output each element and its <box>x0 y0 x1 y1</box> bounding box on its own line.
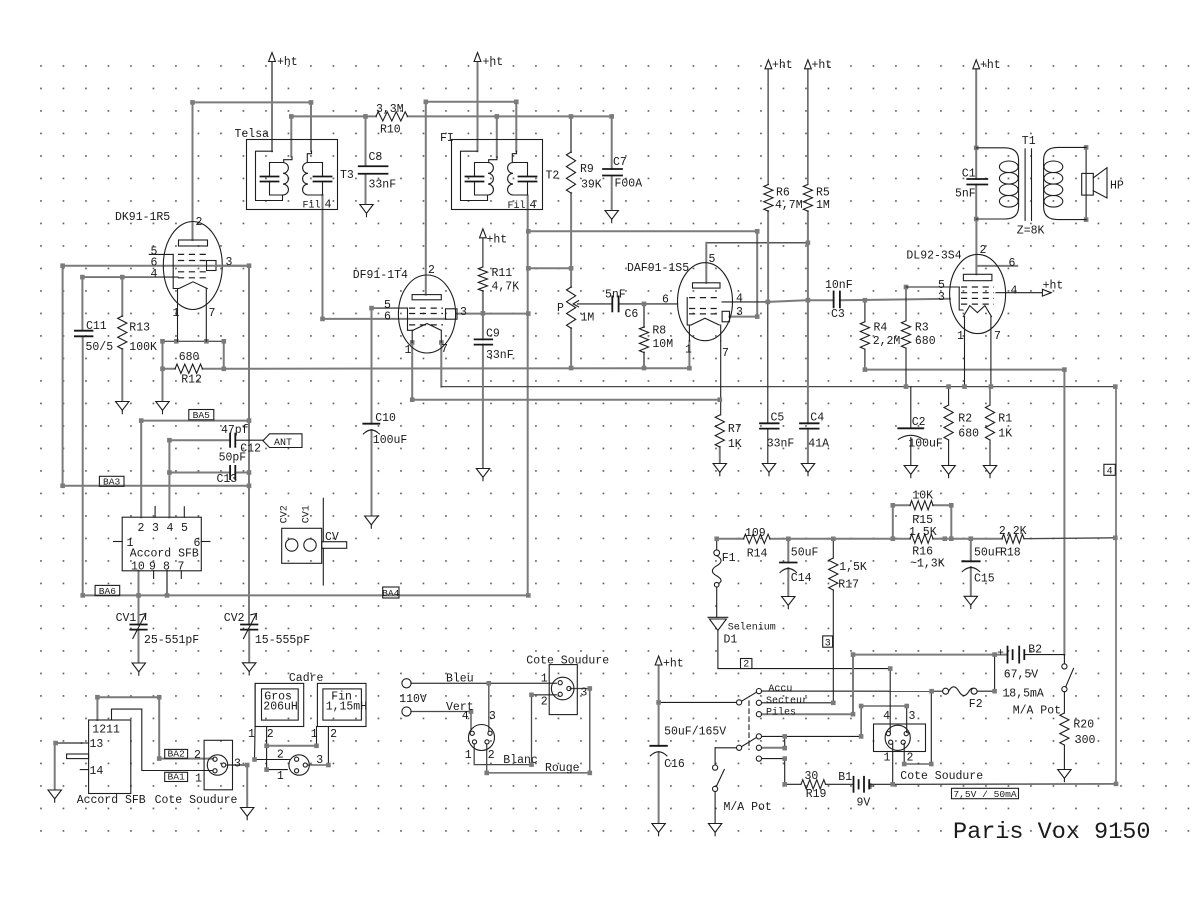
svg-text:C14: C14 <box>791 572 812 585</box>
svg-text:DL92-3S4: DL92-3S4 <box>906 250 961 263</box>
svg-text:4: 4 <box>736 293 743 306</box>
svg-text:Cote Soudure: Cote Soudure <box>155 794 238 807</box>
svg-text:50uF: 50uF <box>791 547 819 560</box>
svg-text:1: 1 <box>541 673 548 686</box>
svg-text:+ht: +ht <box>483 56 504 69</box>
svg-text:T2: T2 <box>546 170 560 183</box>
svg-text:7: 7 <box>209 307 216 320</box>
svg-text:50uF/165V: 50uF/165V <box>664 726 726 739</box>
svg-text:2,2M: 2,2M <box>873 335 901 348</box>
svg-text:D1: D1 <box>724 634 738 647</box>
svg-text:7: 7 <box>994 330 1001 343</box>
svg-text:C8: C8 <box>369 151 383 164</box>
svg-text:3: 3 <box>580 687 587 700</box>
svg-text:13: 13 <box>90 738 104 751</box>
svg-text:3: 3 <box>489 710 496 723</box>
svg-text:10: 10 <box>131 561 145 574</box>
svg-text:C13: C13 <box>217 473 238 486</box>
svg-text:33nF: 33nF <box>369 179 397 192</box>
svg-text:C15: C15 <box>974 573 995 586</box>
svg-text:R19: R19 <box>806 788 827 801</box>
svg-text:R20: R20 <box>1073 719 1094 732</box>
svg-text:F1: F1 <box>722 552 736 565</box>
svg-text:100uF: 100uF <box>373 434 408 447</box>
svg-text:1: 1 <box>465 749 472 762</box>
svg-text:2: 2 <box>196 216 203 229</box>
svg-text:BA2: BA2 <box>167 749 185 760</box>
svg-text:R17: R17 <box>838 579 859 592</box>
svg-text:3: 3 <box>152 522 159 535</box>
svg-text:2: 2 <box>194 749 201 762</box>
svg-text:1,5K: 1,5K <box>839 561 867 574</box>
svg-text:R6: R6 <box>776 187 790 200</box>
svg-text:DF91-1T4: DF91-1T4 <box>353 269 408 282</box>
svg-text:CV2: CV2 <box>280 505 291 523</box>
svg-text:HP: HP <box>1110 180 1124 193</box>
svg-text:C11: C11 <box>86 320 107 333</box>
svg-text:Secteur: Secteur <box>766 696 808 707</box>
svg-text:+: + <box>997 647 1004 660</box>
svg-text:Accord SFB: Accord SFB <box>77 794 146 807</box>
svg-text:+ht: +ht <box>487 234 508 247</box>
svg-text:3: 3 <box>460 306 467 319</box>
svg-text:4: 4 <box>883 710 890 723</box>
svg-text:4: 4 <box>325 199 332 212</box>
svg-text:1: 1 <box>195 773 202 786</box>
svg-text:Cadre: Cadre <box>289 672 324 685</box>
svg-text:50uF: 50uF <box>974 547 1002 560</box>
svg-text:1K: 1K <box>728 438 742 451</box>
svg-text:680: 680 <box>915 335 936 348</box>
svg-text:5nF: 5nF <box>605 289 626 302</box>
svg-text:9: 9 <box>149 561 156 574</box>
svg-text:4: 4 <box>1011 285 1018 298</box>
svg-text:T1: T1 <box>1022 135 1036 148</box>
svg-text:67,5V: 67,5V <box>1004 669 1039 682</box>
svg-text:+ht: +ht <box>980 59 1001 72</box>
svg-text:10nF: 10nF <box>825 279 853 292</box>
svg-text:R13: R13 <box>129 322 150 335</box>
svg-text:P: P <box>557 302 564 315</box>
svg-text:4: 4 <box>530 199 537 212</box>
svg-text:F00A: F00A <box>615 178 643 191</box>
svg-text:R8: R8 <box>652 325 666 338</box>
svg-text:300: 300 <box>1075 734 1096 747</box>
svg-text:3: 3 <box>909 710 916 723</box>
svg-text:+: + <box>868 781 875 794</box>
svg-text:3: 3 <box>226 256 233 269</box>
svg-text:2: 2 <box>267 728 274 741</box>
svg-text:M/A Pot: M/A Pot <box>724 801 772 814</box>
svg-text:Cote Soudure: Cote Soudure <box>526 655 609 668</box>
svg-text:Telsa: Telsa <box>235 128 270 141</box>
svg-text:R3: R3 <box>915 322 929 335</box>
svg-text:C1: C1 <box>962 168 976 181</box>
svg-text:C10: C10 <box>375 412 396 425</box>
svg-text:R18: R18 <box>1000 547 1021 560</box>
svg-text:4,7M: 4,7M <box>775 199 803 212</box>
svg-text:R2: R2 <box>958 413 972 426</box>
svg-text:3: 3 <box>825 638 831 649</box>
svg-text:100K: 100K <box>129 341 157 354</box>
svg-text:41A: 41A <box>808 438 829 451</box>
svg-text:1: 1 <box>957 330 964 343</box>
svg-text:~1,3K: ~1,3K <box>910 558 945 571</box>
svg-text:2: 2 <box>980 244 987 257</box>
svg-text:6: 6 <box>384 311 391 324</box>
svg-text:Vert: Vert <box>446 701 474 714</box>
svg-text:C6: C6 <box>625 308 639 321</box>
svg-text:BA4: BA4 <box>382 588 400 599</box>
svg-text:Bleu: Bleu <box>446 673 474 686</box>
svg-text:109: 109 <box>745 527 766 540</box>
svg-text:680: 680 <box>179 351 200 364</box>
svg-text:4: 4 <box>462 710 469 723</box>
svg-text:15-555pF: 15-555pF <box>255 634 310 647</box>
svg-text:5: 5 <box>709 253 716 266</box>
svg-text:1: 1 <box>173 307 180 320</box>
svg-text:47pf: 47pf <box>221 424 249 437</box>
svg-text:+ht: +ht <box>772 59 793 72</box>
svg-text:33nF: 33nF <box>767 438 795 451</box>
svg-text:1: 1 <box>277 770 284 783</box>
svg-text:1K: 1K <box>998 428 1012 441</box>
svg-text:C2: C2 <box>912 416 926 429</box>
svg-text:Accu: Accu <box>768 684 792 695</box>
svg-text:C4: C4 <box>810 412 824 425</box>
svg-text:2: 2 <box>138 522 145 535</box>
svg-text:CV1: CV1 <box>301 505 312 523</box>
svg-text:Z=8K: Z=8K <box>1017 225 1045 238</box>
svg-text:39K: 39K <box>581 179 602 192</box>
svg-text:R5: R5 <box>816 187 830 200</box>
svg-text:BA6: BA6 <box>99 586 117 597</box>
svg-text:Rouge: Rouge <box>545 762 580 775</box>
svg-text:C9: C9 <box>486 328 500 341</box>
svg-text:10M: 10M <box>652 338 673 351</box>
svg-text:3: 3 <box>736 306 743 319</box>
svg-text:2: 2 <box>428 264 435 277</box>
svg-text:+ht: +ht <box>812 59 833 72</box>
svg-text:+ht: +ht <box>1043 280 1064 293</box>
svg-text:CV2: CV2 <box>224 612 245 625</box>
svg-text:2: 2 <box>488 749 495 762</box>
svg-text:25-551pF: 25-551pF <box>144 634 199 647</box>
svg-text:R7: R7 <box>728 423 742 436</box>
svg-text:B2: B2 <box>1028 644 1042 657</box>
svg-text:206uH: 206uH <box>263 701 298 714</box>
svg-text:1M: 1M <box>581 312 595 325</box>
svg-text:2: 2 <box>277 749 284 762</box>
svg-text:2: 2 <box>330 728 337 741</box>
svg-text:1: 1 <box>884 752 891 765</box>
svg-text:BA1: BA1 <box>167 772 185 783</box>
svg-text:7,5V / 50mA: 7,5V / 50mA <box>953 789 1017 800</box>
svg-text:C16: C16 <box>664 758 685 771</box>
svg-text:100uF: 100uF <box>908 438 943 451</box>
svg-text:R12: R12 <box>181 374 202 387</box>
svg-text:Piles: Piles <box>766 707 796 719</box>
svg-text:F2: F2 <box>969 698 983 711</box>
svg-text:6: 6 <box>1009 257 1016 270</box>
svg-text:3: 3 <box>316 754 323 767</box>
svg-text:4: 4 <box>167 522 174 535</box>
svg-text:7: 7 <box>178 561 185 574</box>
svg-text:+ht: +ht <box>663 658 684 671</box>
svg-text:1: 1 <box>685 344 692 357</box>
svg-text:2: 2 <box>907 752 914 765</box>
svg-text:C5: C5 <box>771 412 785 425</box>
svg-text:M/A Pot: M/A Pot <box>1013 705 1061 718</box>
svg-text:4: 4 <box>1107 467 1113 478</box>
svg-text:R4: R4 <box>874 322 888 335</box>
svg-text:7: 7 <box>441 343 448 356</box>
svg-text:R14: R14 <box>747 548 768 561</box>
svg-text:T3: T3 <box>340 169 354 182</box>
svg-text:Blanc: Blanc <box>503 754 538 767</box>
svg-text:CV1: CV1 <box>116 612 137 625</box>
svg-text:Fil: Fil <box>303 200 321 212</box>
svg-text:Accord SFB: Accord SFB <box>130 548 199 561</box>
svg-text:Fil: Fil <box>508 200 526 212</box>
svg-text:3: 3 <box>234 758 241 771</box>
svg-text:5nF: 5nF <box>955 188 976 201</box>
svg-text:B1: B1 <box>838 771 852 784</box>
svg-text:Paris Vox 9150: Paris Vox 9150 <box>953 819 1150 846</box>
svg-text:30: 30 <box>805 770 819 783</box>
svg-text:2: 2 <box>541 696 548 709</box>
svg-text:4: 4 <box>151 268 158 281</box>
svg-text:14: 14 <box>90 765 104 778</box>
svg-text:ANT: ANT <box>274 438 292 449</box>
svg-text:7: 7 <box>722 347 729 360</box>
svg-text:3,3M: 3,3M <box>376 103 404 116</box>
svg-text:C7: C7 <box>613 156 627 169</box>
svg-text:DK91-1R5: DK91-1R5 <box>115 211 170 224</box>
svg-text:2: 2 <box>743 660 749 671</box>
svg-text:50/5: 50/5 <box>86 341 114 354</box>
svg-text:Cote Soudure: Cote Soudure <box>900 770 983 783</box>
svg-text:8: 8 <box>163 561 170 574</box>
svg-text:18,5mA: 18,5mA <box>1002 688 1044 701</box>
svg-text:BA5: BA5 <box>193 410 211 421</box>
svg-text:680: 680 <box>958 428 979 441</box>
svg-text:R9: R9 <box>580 163 594 176</box>
svg-text:1: 1 <box>405 344 412 357</box>
svg-text:6: 6 <box>662 294 669 307</box>
svg-text:3: 3 <box>938 291 945 304</box>
svg-text:50pF: 50pF <box>219 452 247 465</box>
svg-text:CV: CV <box>325 531 339 544</box>
svg-text:FI: FI <box>440 132 454 145</box>
svg-text:DAF91-1S5: DAF91-1S5 <box>627 262 689 275</box>
svg-text:9V: 9V <box>857 797 871 810</box>
svg-text:1211: 1211 <box>92 724 120 737</box>
svg-text:R1: R1 <box>998 413 1012 426</box>
svg-text:Selenium: Selenium <box>728 622 776 634</box>
svg-text:33nF: 33nF <box>486 349 514 362</box>
svg-text:4,7K: 4,7K <box>492 281 520 294</box>
svg-text:1,5K: 1,5K <box>909 526 937 539</box>
svg-text:BA3: BA3 <box>103 477 121 488</box>
svg-text:1,15mH: 1,15mH <box>326 701 367 714</box>
svg-text:1: 1 <box>248 728 255 741</box>
svg-text:C3: C3 <box>831 308 845 321</box>
svg-text:110V: 110V <box>399 693 427 706</box>
svg-text:10K: 10K <box>912 490 933 503</box>
svg-text:1M: 1M <box>816 199 830 212</box>
svg-text:1: 1 <box>311 728 318 741</box>
svg-text:R11: R11 <box>492 267 513 280</box>
svg-text:+ht: +ht <box>277 56 298 69</box>
svg-text:5: 5 <box>181 522 188 535</box>
svg-text:2,2K: 2,2K <box>999 525 1027 538</box>
svg-text:R10: R10 <box>380 124 401 137</box>
